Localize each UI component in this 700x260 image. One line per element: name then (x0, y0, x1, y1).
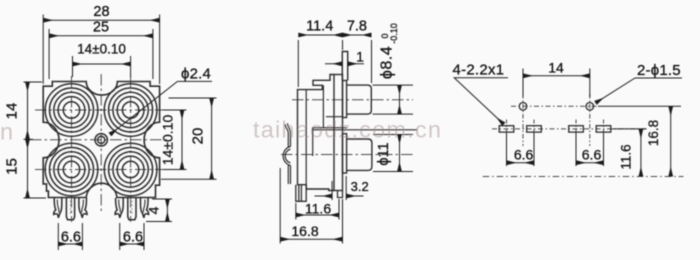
bottom barrel (347, 139, 372, 170)
side body profile (298, 75, 335, 191)
dim 28 (43, 15, 159, 85)
pin group dotted line (70, 201, 72, 216)
centerline horizontal row2 (35, 169, 168, 171)
pcb baseline (483, 176, 684, 178)
centerline vertical col2 (130, 76, 132, 222)
dim phi11 (373, 135, 413, 172)
side internal edge d (313, 127, 347, 129)
svg-text:6.6: 6.6 (582, 146, 602, 162)
svg-text:ϕ8.4: ϕ8.4 (379, 46, 396, 79)
slot 4 (596, 126, 611, 132)
centerline vertical middle (100, 74, 102, 214)
side spring clip (283, 123, 290, 184)
jack boss circle top-right (104, 84, 157, 137)
svg-text:11.6: 11.6 (619, 144, 634, 169)
jack boss circle bottom-right (104, 143, 157, 196)
svg-text:4: 4 (146, 206, 162, 214)
dim 14+-0.10 right (163, 110, 187, 170)
dim 11.6 right view (640, 129, 642, 177)
side internal edge b (322, 85, 324, 127)
centerline slot1 vertical (506, 120, 508, 139)
hole 2 (586, 103, 594, 111)
centerline through slots (492, 128, 648, 130)
slot 2 (527, 126, 542, 132)
dim 15 left (24, 139, 47, 198)
centerline horizontal row1 (35, 109, 168, 111)
centerline hole1 vertical (522, 94, 524, 146)
centerline top barrel axis (292, 99, 413, 101)
dim 16.8 middle (280, 168, 342, 244)
side internal edge c (326, 116, 343, 118)
dim 25 (49, 29, 153, 79)
jack rings bottom-left (50, 148, 94, 192)
jack rings top-right (109, 88, 153, 132)
svg-text:14±0.10: 14±0.10 (77, 42, 126, 57)
dim 1 pin (325, 63, 364, 65)
svg-text:11.6: 11.6 (305, 201, 331, 217)
dim 6.6 slots right (576, 133, 604, 166)
svg-text:1: 1 (356, 49, 364, 65)
dim 14 left (24, 82, 43, 139)
dim 6.6 slots left (507, 133, 535, 166)
svg-text:7.8: 7.8 (347, 19, 367, 35)
side rear leg (296, 185, 306, 202)
slot 1 (499, 126, 514, 132)
dim 11.6 middle (296, 199, 339, 220)
slot 3 (569, 126, 584, 132)
svg-text:16.8: 16.8 (646, 120, 661, 146)
centerline vertical col1 (71, 76, 73, 222)
dim 20 right (161, 98, 217, 179)
svg-text:6.6: 6.6 (123, 229, 143, 245)
dim 6.6 left group (58, 223, 82, 250)
svg-text:ϕ2.4: ϕ2.4 (181, 66, 211, 83)
jack boss circle top-left (45, 84, 98, 137)
dim 14+-0.10 top (73, 56, 131, 77)
pin group 1 (54, 198, 87, 220)
dim 6.6 right group (120, 223, 144, 250)
center hole (95, 134, 107, 146)
centerline slot3 vertical (575, 120, 577, 139)
side internal edge a (305, 90, 307, 185)
pin group dotted line (131, 201, 133, 216)
centerline slot4 vertical (603, 120, 605, 139)
svg-text:4-2.2x1: 4-2.2x1 (453, 62, 505, 79)
dim phi8.4 (373, 85, 414, 114)
centerline slot2 vertical (533, 120, 535, 139)
svg-text:11.4: 11.4 (306, 19, 333, 35)
svg-text:14: 14 (548, 60, 564, 76)
svg-text:3.2: 3.2 (351, 179, 369, 194)
bottom collar (343, 134, 347, 173)
ext line slots right (612, 128, 647, 130)
side internal edge e (312, 128, 314, 156)
side front leg (338, 191, 343, 198)
svg-text:6.6: 6.6 (514, 146, 534, 162)
centerline through holes (511, 105, 598, 107)
hole 1 (519, 103, 527, 111)
svg-text:20: 20 (190, 128, 207, 145)
body outline (43, 82, 159, 198)
svg-text:2-ϕ1.5: 2-ϕ1.5 (637, 62, 681, 79)
svg-text:14±0.10: 14±0.10 (160, 115, 176, 166)
svg-text:28: 28 (93, 4, 109, 20)
svg-text:25: 25 (93, 20, 109, 36)
svg-text:6.6: 6.6 (61, 229, 81, 245)
dim 11.4 (298, 35, 342, 87)
jack rings bottom-right (109, 148, 153, 192)
top barrel (347, 85, 372, 114)
dim 14 holes (523, 69, 590, 98)
svg-text:16.8: 16.8 (291, 223, 318, 239)
top pin side (342, 52, 347, 81)
side mounting plate (334, 75, 343, 191)
svg-text:15: 15 (4, 158, 21, 175)
watermark (0, 117, 442, 145)
centerline bottom barrel axis (281, 154, 413, 156)
svg-text:n: n (0, 119, 14, 145)
pin group 2 (115, 198, 149, 220)
ledge line (313, 129, 417, 131)
ext line holes right (598, 105, 681, 107)
svg-text:-0.10: -0.10 (389, 23, 399, 44)
svg-text:14: 14 (4, 103, 21, 120)
top collar (343, 81, 347, 118)
dim 16.8 right view (670, 106, 672, 176)
centerline hole2 vertical (589, 94, 591, 146)
svg-text:ϕ11: ϕ11 (376, 142, 392, 165)
jack boss circle bottom-left (45, 143, 98, 196)
dim 7.8 (343, 35, 372, 83)
dim 4 bottom right (146, 199, 172, 222)
centerline horizontal middle (30, 139, 167, 141)
dim 3.2 (315, 176, 364, 200)
jack rings top-left (50, 88, 94, 132)
